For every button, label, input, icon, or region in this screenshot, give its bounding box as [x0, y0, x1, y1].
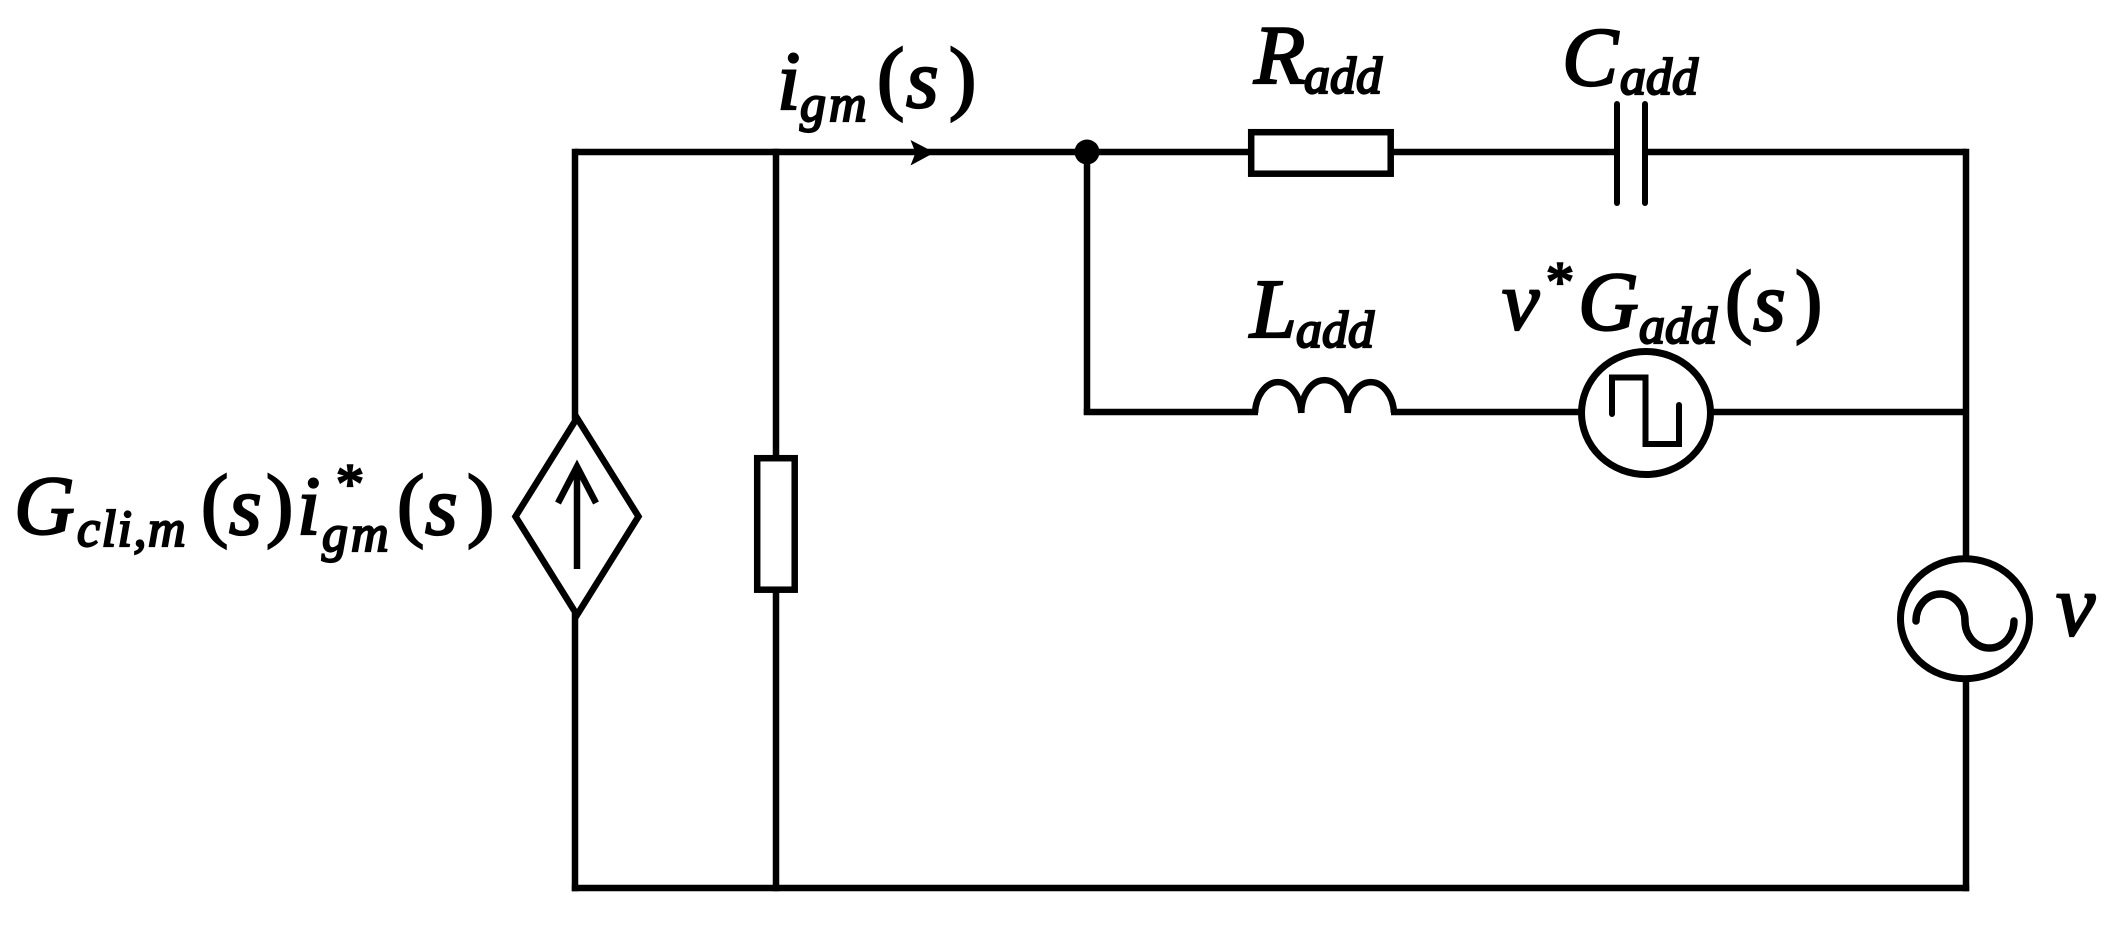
wire left vertical upper: [572, 149, 579, 420]
dependent current source arrow head: [558, 467, 596, 504]
svg-text:add: add: [1304, 48, 1383, 105]
admittance Y_oi,m rectangle: [757, 458, 795, 590]
ac voltage source v circle: [1901, 559, 2030, 679]
svg-text:add: add: [1620, 49, 1699, 106]
dependent current source G_cli,m diamond: [516, 418, 639, 615]
svg-text:add: add: [1296, 302, 1375, 359]
svg-text:): ): [467, 458, 494, 549]
svg-text:C: C: [1562, 11, 1619, 104]
wire left vertical lower: [572, 613, 579, 891]
wire bottom horizontal: [572, 885, 1969, 892]
wire lower branch left: [1084, 409, 1258, 416]
node junction dot: [1075, 140, 1100, 165]
svg-text:L: L: [1249, 263, 1297, 356]
wire top horizontal left segment: [575, 149, 1617, 156]
capacitor C_add left plate: [1614, 104, 1620, 203]
svg-text:(: (: [201, 458, 228, 549]
svg-text:): ): [949, 31, 976, 122]
current arrow i_gm on top wire: [911, 140, 935, 166]
wire lower branch middle (inductor to controlled source): [1391, 409, 1581, 416]
svg-text:): ): [266, 458, 293, 549]
svg-text:s: s: [1753, 256, 1786, 349]
resistor R_add rectangle: [1251, 132, 1391, 174]
svg-text:i: i: [777, 35, 800, 128]
svg-text:s: s: [425, 460, 458, 553]
svg-text:i: i: [297, 460, 320, 553]
svg-text:s: s: [906, 33, 939, 126]
ac voltage source sine wave: [1916, 594, 2014, 648]
svg-text:(: (: [1725, 254, 1752, 345]
dependent current source arrow shaft: [574, 470, 581, 569]
svg-text:gm: gm: [322, 506, 392, 563]
capacitor C_add right plate: [1642, 104, 1648, 203]
svg-text:v: v: [1502, 255, 1540, 348]
svg-text:v: v: [2056, 558, 2096, 655]
wire right vertical upper: [1963, 149, 1970, 558]
wire node vertical drop: [1084, 152, 1091, 415]
svg-text:G: G: [14, 460, 75, 553]
wire top horizontal right segment: [1645, 149, 1966, 156]
svg-text:R: R: [1253, 9, 1305, 102]
svg-text:(: (: [397, 458, 424, 549]
svg-text:*: *: [1546, 251, 1574, 313]
svg-text:): ): [1795, 254, 1822, 345]
wire right vertical lower: [1963, 679, 1970, 891]
wire resistor branch upper: [773, 149, 780, 458]
controlled source v*G_add circle: [1582, 352, 1711, 475]
wire resistor branch lower: [773, 590, 780, 891]
svg-text:(: (: [877, 31, 904, 122]
svg-text:add: add: [1639, 298, 1718, 355]
wire lower branch right: [1712, 409, 1966, 416]
svg-text:s: s: [229, 460, 262, 553]
svg-text:G: G: [1578, 256, 1639, 349]
controlled source square-wave glyph: [1612, 378, 1679, 445]
svg-text:cli,m: cli,m: [77, 501, 187, 558]
svg-text:gm: gm: [800, 76, 870, 133]
inductor L_add coils: [1255, 380, 1394, 413]
